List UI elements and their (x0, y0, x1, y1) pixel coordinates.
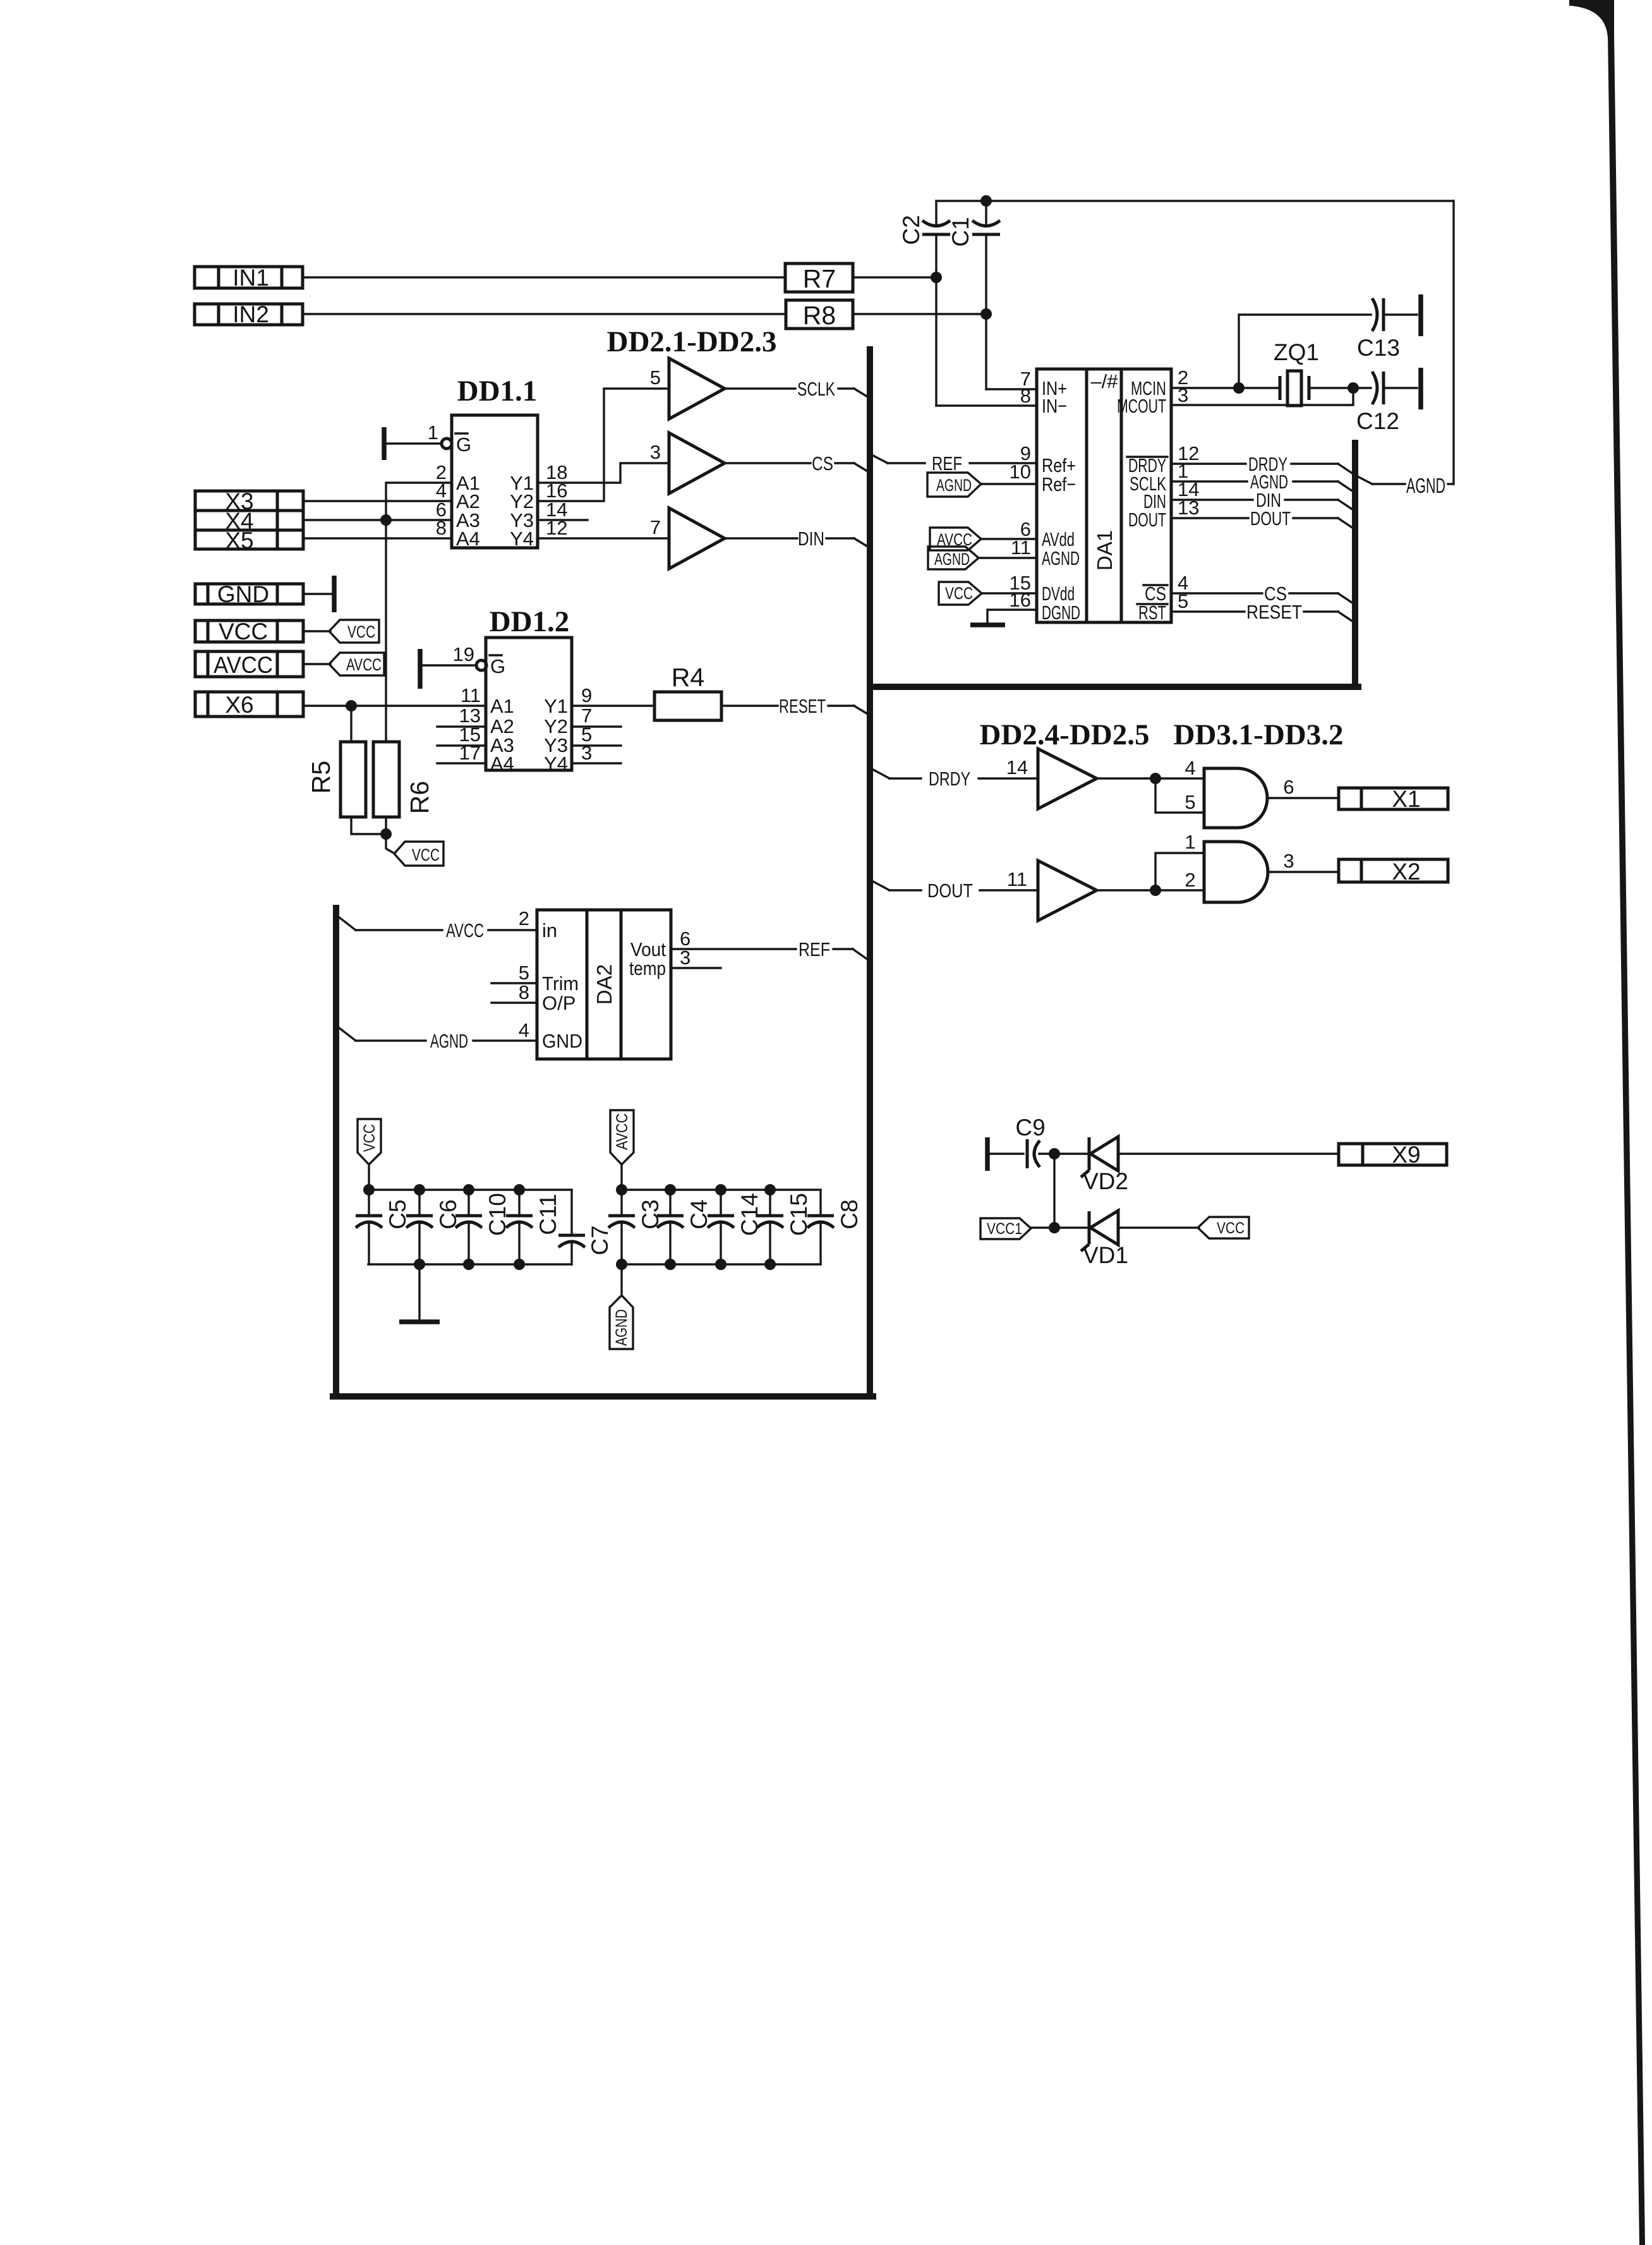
wire bottom rail to ground (418, 1264, 420, 1321)
capacitor C4 (657, 1190, 712, 1264)
net label DIN from DA1 pin 14 to bus (1171, 489, 1353, 511)
svg-text:R6: R6 (405, 781, 434, 814)
terminator bar DD1.2 pin 19 (418, 649, 423, 689)
junction VCC1 / VD1 (1049, 1222, 1060, 1233)
svg-text:14: 14 (1006, 756, 1028, 778)
svg-text:X6: X6 (225, 692, 253, 718)
resistor R6 (373, 742, 434, 817)
terminator bar C9 (985, 1137, 990, 1171)
svg-text:11: 11 (1007, 868, 1027, 890)
svg-text:temp: temp (629, 957, 666, 979)
svg-text:RESET: RESET (1246, 601, 1302, 623)
svg-text:AVCC: AVCC (214, 652, 273, 678)
svg-text:AGND: AGND (1406, 474, 1445, 497)
terminator bar C13 (1418, 294, 1423, 336)
capacitor C3 (608, 1190, 663, 1264)
connector AVCC (195, 651, 303, 678)
wire branch to DD3.1 pin 5 (1155, 778, 1204, 813)
buffer DD2.2 (669, 433, 725, 493)
wire DD1.1 Y3 stub (538, 519, 588, 521)
DD1.2 right pin numbers 9 7 5 3 (581, 684, 592, 764)
resistor R4 (654, 692, 721, 720)
diode VD1 (1081, 1211, 1128, 1268)
junction A3 / R6 line (380, 514, 392, 526)
net label AVCC from frame bus to DA2 pin 2 (339, 917, 537, 941)
wire DD1.1 Y4 to buffer DD2.3 input (538, 537, 669, 539)
svg-text:REF: REF (932, 452, 962, 475)
wire DA2 pin 3 temp stub (671, 967, 721, 969)
svg-text:G: G (490, 655, 505, 677)
power tag VCC to DA1 pin 15 DVdd (939, 582, 1037, 605)
capacitor C11 (506, 1190, 561, 1264)
svg-text:GND: GND (542, 1030, 582, 1052)
svg-text:VCC: VCC (219, 619, 268, 644)
svg-text:Y4: Y4 (544, 753, 568, 775)
DD1.1 right pin numbers 18 16 14 12 (546, 461, 567, 539)
junction MCOUT / C12 (1348, 382, 1359, 394)
svg-text:16: 16 (1010, 589, 1031, 611)
svg-text:DOUT: DOUT (927, 880, 973, 902)
scan page edge line (1569, 0, 1645, 2245)
wire VCC1 to VD1 (1031, 1226, 1089, 1228)
svg-text:DD1.1: DD1.1 (457, 375, 538, 408)
wire DD2.5 output to gate DD3.2 pin 2 (1097, 889, 1204, 891)
connector VCC (195, 619, 303, 644)
svg-text:C13: C13 (1357, 335, 1400, 361)
svg-text:–/#: –/# (1090, 370, 1118, 392)
capacitor C15 (757, 1190, 812, 1264)
frame bus bottom horizontal (333, 1393, 873, 1400)
svg-text:VD1: VD1 (1083, 1242, 1128, 1268)
power tag AVCC to DA1 pin 6 AVdd (930, 528, 1037, 550)
net label DRDY from DA1 pin 12 to bus (1171, 453, 1353, 475)
junction node B (R8 / C1 / IN+) (980, 308, 992, 320)
wire cap bank right bottom rail (620, 1263, 821, 1265)
wire VCC stub (303, 630, 330, 632)
svg-text:X9: X9 (1392, 1142, 1420, 1168)
svg-text:VCC: VCC (347, 622, 375, 641)
wire DD1.1 Y1 to buffer DD2.2 input (538, 463, 669, 483)
wire R5 bottom to R6 bottom (351, 817, 386, 834)
svg-text:CS: CS (812, 452, 833, 475)
DD1.2 pin 19 inverter circle (476, 660, 486, 670)
buffer DD2.1 (669, 358, 725, 419)
svg-text:AVCC: AVCC (613, 1113, 631, 1150)
svg-text:C9: C9 (1015, 1115, 1045, 1141)
svg-text:3: 3 (650, 441, 661, 463)
wire VCC tag to rail (368, 1165, 370, 1190)
svg-text:REF: REF (799, 938, 830, 960)
net label CS from DA1 pin 4 to bus (1171, 583, 1353, 605)
wire node A to DA1 pin 8 IN- (936, 277, 1037, 406)
svg-text:8: 8 (1020, 385, 1031, 407)
IC DD1.2 body (486, 638, 572, 775)
gate DD3.1 pin numbers 4 5 6 (1185, 757, 1294, 813)
DA1 left pin numbers (1010, 368, 1031, 611)
resistor R5 (306, 742, 366, 817)
wire AVCC stub (303, 663, 330, 665)
power tag VCC (connector) (329, 620, 379, 643)
buffer DD2.5 (1038, 861, 1097, 921)
svg-text:9: 9 (581, 684, 592, 706)
svg-text:DD1.2: DD1.2 (490, 605, 570, 638)
capacitor C10 (455, 1190, 510, 1264)
svg-text:VCC1: VCC1 (987, 1220, 1022, 1238)
capacitor C13 (1357, 298, 1417, 361)
connector X2 (1339, 859, 1448, 885)
wire branch to DD3.2 pin 1 (1155, 853, 1204, 890)
IC DA2 body (537, 910, 671, 1059)
svg-text:A4: A4 (456, 528, 480, 550)
terminator bar GND (332, 576, 337, 612)
wire X5 to DD1.1 pin A4 (303, 537, 452, 539)
svg-text:R7: R7 (803, 264, 836, 293)
capacitor C1 (948, 201, 1000, 247)
power tag AGND to DA1 pin 11 AGND (928, 547, 1037, 569)
bus horizontal (870, 684, 1358, 690)
net label REF to DA1 pin 9 Ref+ (873, 452, 1037, 475)
svg-text:1: 1 (428, 421, 438, 444)
wire DD3.1 output to X1 (1269, 797, 1339, 799)
DA2 pin numbers 5 8 4 6 3 (519, 928, 691, 1041)
svg-text:DA1: DA1 (1093, 530, 1116, 571)
svg-text:R4: R4 (672, 663, 704, 692)
svg-text:DOUT: DOUT (1128, 509, 1166, 531)
AND gate DD3.2 (1204, 842, 1268, 902)
svg-text:3: 3 (1283, 850, 1294, 872)
svg-text:8: 8 (519, 981, 529, 1003)
net label AGND (right) (1356, 474, 1454, 497)
DA1 right pin numbers (1178, 366, 1199, 612)
svg-text:AGND: AGND (936, 476, 972, 495)
connector IN1 (195, 265, 303, 291)
svg-text:C12: C12 (1356, 408, 1399, 434)
svg-text:O/P: O/P (542, 992, 576, 1014)
svg-text:Y4: Y4 (510, 528, 534, 550)
wire junction to VCC tag (386, 834, 395, 854)
capacitor C5 (356, 1190, 411, 1264)
power tag AVCC (connector) (329, 653, 384, 675)
IC DA1 body (1037, 369, 1171, 624)
svg-text:4: 4 (1185, 757, 1195, 779)
power tag VCC (R5/R6) (394, 842, 443, 866)
capacitor C6 (406, 1190, 461, 1264)
junction R5/R6/VCC (380, 828, 392, 840)
wire R5 top (350, 706, 352, 742)
svg-text:in: in (542, 919, 557, 941)
junction C1 top (980, 195, 992, 207)
svg-text:DD2.1-DD2.3: DD2.1-DD2.3 (607, 325, 777, 358)
junction dots left top rail (363, 1184, 525, 1195)
svg-text:RESET: RESET (779, 695, 826, 717)
connector IN2 (195, 301, 303, 327)
junction dots right top rail (616, 1184, 776, 1195)
svg-text:DD3.1-DD3.2: DD3.1-DD3.2 (1174, 718, 1344, 751)
wire DA2 O/P stub (491, 1001, 537, 1003)
bus vertical left (867, 349, 873, 1396)
svg-text:4: 4 (519, 1019, 529, 1041)
bus vertical right (1352, 443, 1358, 687)
svg-text:Y1: Y1 (544, 695, 568, 717)
svg-text:VCC: VCC (361, 1124, 378, 1152)
svg-text:VCC: VCC (1217, 1219, 1245, 1237)
connector X1 (1339, 786, 1448, 812)
connector X9 (1339, 1142, 1447, 1168)
wire bottom rail to AGND tag (620, 1264, 622, 1295)
power tag AVCC (cap bank) (610, 1110, 634, 1165)
capacitor C9 (1015, 1115, 1045, 1168)
wire IN2 to R8 (303, 313, 786, 315)
svg-text:Ref−: Ref− (1042, 473, 1076, 495)
power tag VCC (cap bank) (358, 1119, 381, 1165)
junction dots left bottom rail (414, 1259, 525, 1270)
wire node A1 vertical (A1 / A3 / R6) (386, 483, 452, 742)
net label REF from DA2 pin 6 Vout to bus (671, 938, 868, 960)
svg-text:X1: X1 (1392, 786, 1420, 812)
svg-text:VCC: VCC (412, 845, 440, 864)
svg-text:Trim: Trim (542, 972, 579, 995)
power tag VCC1 (980, 1218, 1031, 1239)
wire C9 to VD2 (1039, 1153, 1089, 1154)
wire AGND right-side vertical (1452, 201, 1454, 484)
wire DD1.2 A3 stub (437, 744, 486, 746)
wire X4 to DD1.1 pin A3 (303, 519, 452, 521)
junction DD3.1 inputs (1150, 773, 1161, 784)
junction dots right bottom rail (616, 1259, 776, 1270)
wire DD1.2 A2 stub (437, 725, 486, 727)
wire DD1.2 Y3 stub (572, 744, 621, 746)
svg-text:C2: C2 (898, 215, 924, 245)
svg-text:6: 6 (1283, 776, 1294, 798)
svg-text:R5: R5 (306, 761, 335, 794)
svg-text:2: 2 (1185, 869, 1195, 891)
svg-text:AVCC: AVCC (446, 919, 484, 941)
svg-text:SCLK: SCLK (797, 378, 835, 400)
net label DOUT from bus to buffer DD2.5 (873, 880, 1038, 902)
ground bar DGND (970, 622, 1005, 627)
svg-text:X5: X5 (225, 528, 253, 554)
wire node B to DA1 pin 7 IN+ (986, 234, 1037, 389)
power tag VCC (VD1) (1198, 1217, 1249, 1238)
wire DD1.2 A4 stub (437, 762, 486, 764)
net label CS wire to bus (725, 452, 869, 475)
net label AGND from frame bus to DA2 pin 4 GND (339, 1028, 537, 1052)
svg-text:X2: X2 (1392, 859, 1420, 885)
svg-text:C7: C7 (587, 1225, 613, 1255)
wire VD1 to VCC tag (1118, 1226, 1199, 1228)
connector GND (195, 581, 303, 607)
svg-text:VD2: VD2 (1083, 1168, 1128, 1194)
wire MCIN node to C13 (1239, 315, 1371, 388)
wire DD1.2 pin 19 stub (422, 664, 476, 666)
wire DA1 pin 16 DGND to ground (987, 610, 1037, 624)
junction node A (R7 / C2 / IN-) (931, 272, 942, 283)
svg-text:AGND: AGND (430, 1030, 468, 1052)
svg-text:2: 2 (519, 907, 529, 929)
net label RESET from DA1 pin 5 to bus (1171, 601, 1353, 623)
net label DOUT from DA1 pin 13 to bus (1171, 507, 1353, 529)
svg-text:IN−: IN− (1042, 395, 1067, 417)
connector X6 (195, 692, 303, 718)
svg-text:AGND: AGND (1042, 547, 1080, 569)
terminator bar C12 (1418, 368, 1423, 409)
svg-text:11: 11 (461, 684, 481, 706)
wire DA2 Trim stub (491, 982, 537, 984)
svg-text:DRDY: DRDY (929, 768, 970, 790)
svg-text:DA2: DA2 (593, 964, 616, 1005)
frame bus left vertical (333, 908, 339, 1396)
capacitor C14 (708, 1190, 763, 1264)
svg-text:19: 19 (453, 643, 474, 665)
wire IN1 to R7 (303, 276, 785, 278)
terminator bar DD1.1 pin 1 (382, 427, 387, 460)
capacitor C12 (1353, 372, 1417, 434)
net label RESET wire to bus (721, 695, 869, 717)
DD1.1 pin 1 inverter circle (442, 439, 452, 449)
svg-text:A1: A1 (490, 695, 514, 717)
wire cap bank left bottom rail (368, 1263, 572, 1265)
svg-text:DGND: DGND (1042, 602, 1080, 624)
junction C9 / VD2 / VCC1 link (1049, 1148, 1060, 1159)
svg-text:5: 5 (519, 962, 529, 984)
wire DD1.2 Y1 to R4 (572, 705, 654, 706)
junction X6 / R5 (346, 700, 357, 711)
wire R7 to node A (853, 276, 936, 278)
resistor R8 (786, 300, 853, 330)
svg-text:5: 5 (1185, 791, 1195, 813)
wire DD3.2 output to X2 (1269, 871, 1339, 873)
wire AVCC tag to rail (620, 1165, 622, 1190)
power tag AGND to DA1 pin 10 Ref- (927, 473, 1037, 497)
wire X6 to DD1.2 pin A1 (303, 705, 486, 706)
wire cap bank left top rail (368, 1189, 572, 1190)
net label DIN wire to bus (725, 528, 869, 550)
DD1.2 left pin numbers 11 13 15 17 (459, 684, 481, 764)
svg-text:DOUT: DOUT (1250, 507, 1291, 529)
svg-text:DD2.4-DD2.5: DD2.4-DD2.5 (980, 718, 1150, 751)
svg-text:AGND: AGND (613, 1309, 630, 1346)
svg-text:R8: R8 (803, 301, 836, 330)
junction MCIN / C13 (1233, 382, 1245, 394)
svg-text:DIN: DIN (798, 528, 824, 550)
svg-text:AVCC: AVCC (346, 655, 382, 674)
AND gate DD3.1 (1204, 768, 1267, 828)
wire DD1.1 Y2 to buffer DD2.1 input (538, 389, 669, 501)
capacitor C7 (558, 1190, 613, 1264)
svg-text:A4: A4 (490, 753, 514, 775)
svg-text:IN2: IN2 (232, 301, 269, 327)
wire DA1 pin 2 MCIN to crystal (1171, 387, 1279, 389)
wire X3 to DD1.1 pin A2 (303, 500, 452, 502)
net label AGND from DA1 pin 1 to bus (1171, 471, 1353, 493)
capacitor C8 (807, 1190, 862, 1264)
svg-text:7: 7 (650, 516, 661, 538)
wire DD1.1 pin 1 stub (386, 442, 442, 444)
ground bar (cap bank) (399, 1319, 440, 1324)
svg-text:G: G (456, 433, 471, 456)
svg-text:C11: C11 (535, 1194, 561, 1235)
crystal ZQ1 (1280, 371, 1309, 406)
power tag AGND (cap bank) (610, 1295, 633, 1349)
svg-text:C1: C1 (948, 217, 974, 246)
svg-text:C8: C8 (836, 1199, 862, 1229)
svg-text:IN1: IN1 (232, 265, 269, 291)
gate DD3.2 pin numbers 1 2 3 (1185, 831, 1294, 891)
wire crystal to MCOUT node (1309, 387, 1353, 389)
net label DRDY from bus to buffer DD2.4 (873, 768, 1038, 790)
net label SCLK wire to bus (725, 378, 869, 400)
buffer DD2.3 (669, 508, 725, 569)
wire R6 bottom (385, 817, 387, 834)
wire DD2.4 output to gate DD3.1 pin 4 (1097, 777, 1204, 779)
svg-text:GND: GND (217, 581, 269, 607)
wire bar to C9 (987, 1153, 1023, 1154)
svg-text:MCOUT: MCOUT (1117, 395, 1166, 417)
capacitor C2 (898, 201, 950, 277)
svg-text:VCC: VCC (945, 584, 973, 603)
resistor R7 (785, 263, 853, 293)
IC DD1.1 body (452, 415, 538, 550)
wire R8 to node B (853, 313, 986, 315)
DD1.1 left pin numbers 2 4 6 8 (436, 461, 447, 539)
svg-text:1: 1 (1185, 831, 1195, 853)
wire top rail C2/C1 to AGND drop (936, 200, 1454, 202)
wire DD1.2 Y2 stub (572, 725, 621, 727)
svg-text:AGND: AGND (934, 550, 970, 569)
diode VD2 (1081, 1137, 1128, 1194)
junction DD3.2 inputs (1150, 885, 1161, 896)
wire cap bank right top rail (620, 1189, 821, 1190)
svg-text:ZQ1: ZQ1 (1274, 339, 1319, 365)
wire GND stub (303, 593, 331, 595)
connector X3 X4 X5 (195, 488, 303, 554)
svg-text:5: 5 (650, 366, 661, 389)
wire VD2 to X9 (1118, 1153, 1339, 1154)
wire DD1.2 Y4 stub (572, 762, 621, 764)
wire junction link vertical (1053, 1154, 1055, 1228)
buffer DD2.4 (1038, 749, 1097, 809)
wire DA1 pin 3 MCOUT to node (1171, 388, 1353, 405)
